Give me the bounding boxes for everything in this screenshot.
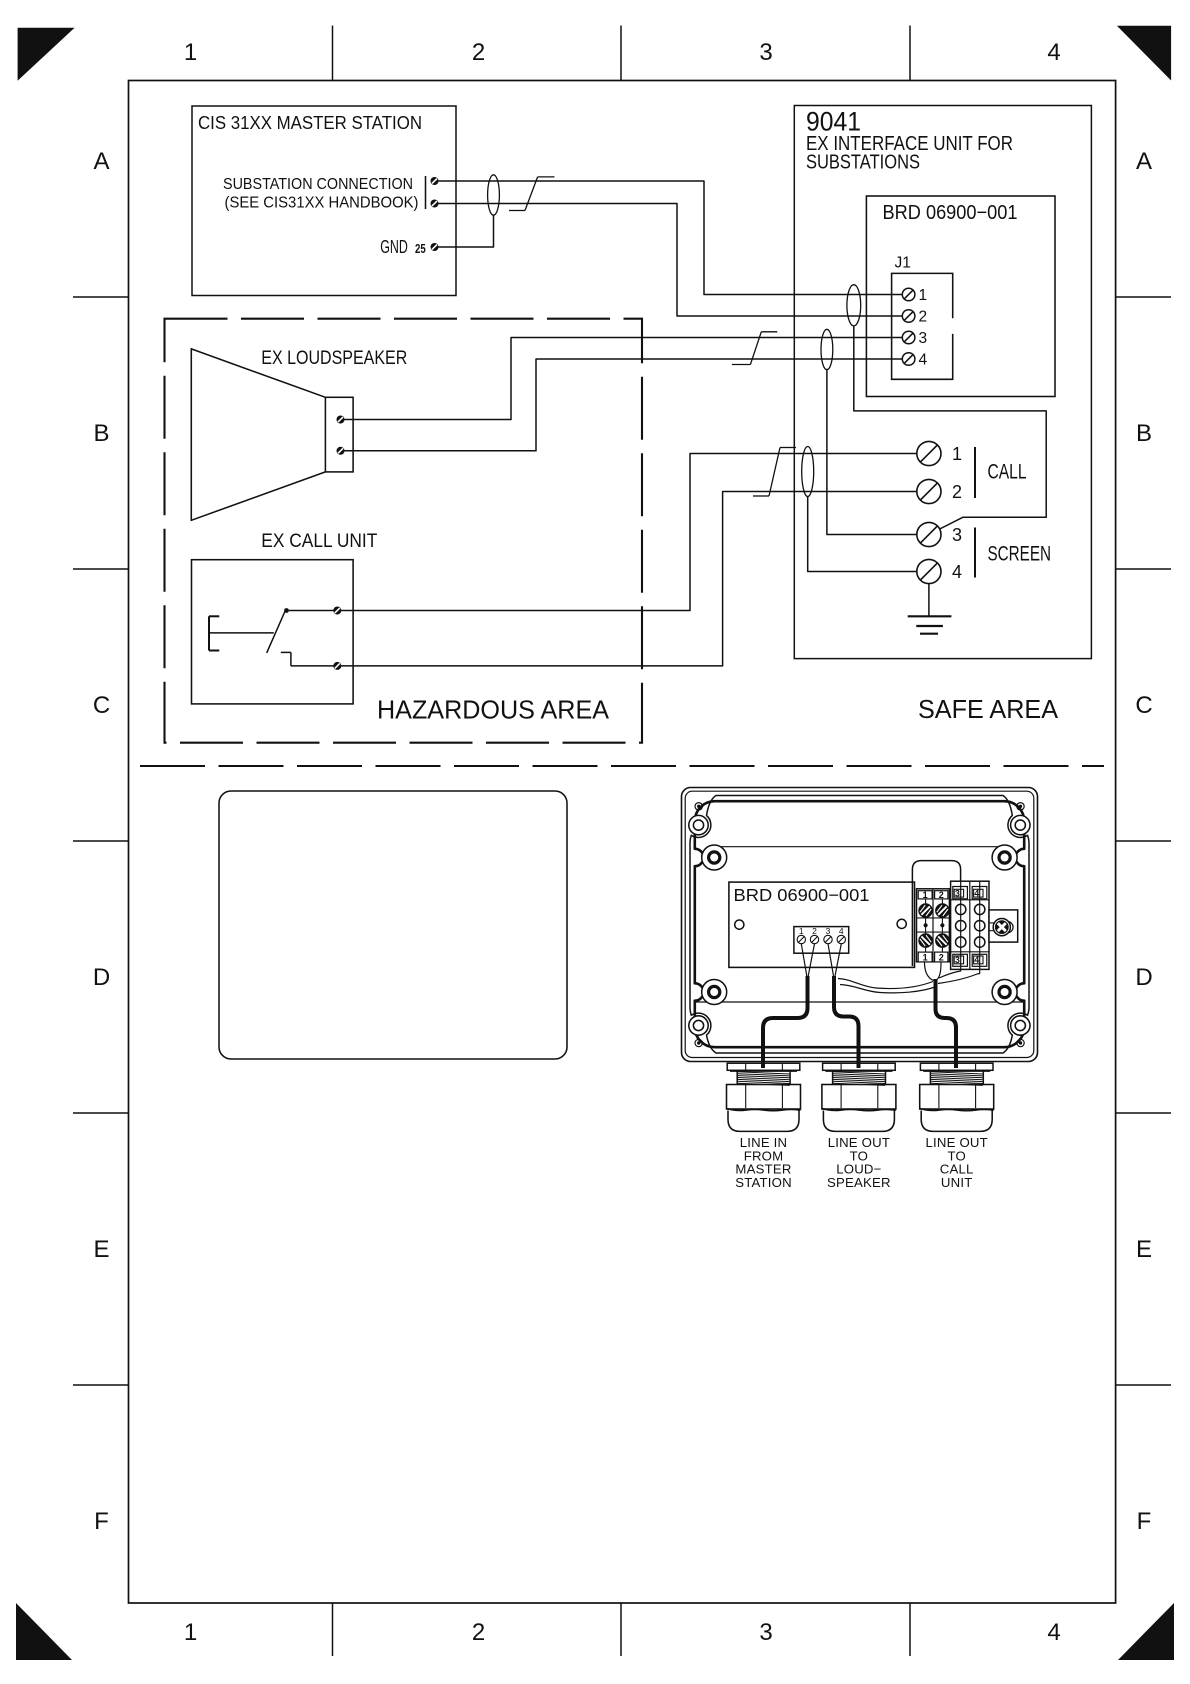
svg-text:(SEE CIS31XX HANDBOOK): (SEE CIS31XX HANDBOOK): [225, 195, 419, 212]
svg-text:EX CALL UNIT: EX CALL UNIT: [261, 531, 377, 552]
svg-text:CIS 31XX MASTER STATION: CIS 31XX MASTER STATION: [198, 113, 422, 133]
svg-text:B: B: [93, 420, 109, 447]
svg-text:2: 2: [939, 890, 944, 900]
svg-text:CALL: CALL: [988, 461, 1027, 484]
svg-text:3: 3: [759, 1619, 772, 1646]
svg-text:UNIT: UNIT: [941, 1175, 973, 1190]
svg-text:C: C: [93, 692, 110, 719]
svg-text:BRD 06900−001: BRD 06900−001: [734, 885, 870, 905]
svg-text:1: 1: [799, 926, 804, 936]
svg-text:D: D: [1135, 964, 1152, 991]
svg-text:1: 1: [923, 953, 928, 963]
svg-text:GND: GND: [380, 237, 408, 257]
svg-text:2: 2: [939, 953, 944, 963]
svg-text:F: F: [94, 1508, 109, 1535]
svg-text:4: 4: [974, 888, 979, 898]
svg-text:3: 3: [955, 888, 960, 898]
svg-text:SUBSTATIONS: SUBSTATIONS: [806, 152, 920, 174]
svg-text:EX LOUDSPEAKER: EX LOUDSPEAKER: [261, 348, 407, 369]
svg-text:A: A: [93, 148, 109, 175]
svg-text:SPEAKER: SPEAKER: [827, 1175, 891, 1190]
svg-text:1: 1: [919, 287, 928, 304]
svg-text:1: 1: [184, 39, 197, 66]
svg-text:2: 2: [472, 1619, 485, 1646]
svg-text:2: 2: [919, 309, 928, 326]
svg-text:SAFE AREA: SAFE AREA: [918, 694, 1059, 724]
svg-text:2: 2: [812, 926, 817, 936]
svg-text:4: 4: [919, 352, 928, 369]
svg-text:C: C: [1135, 692, 1152, 719]
svg-text:2: 2: [952, 482, 962, 502]
svg-text:J1: J1: [895, 255, 911, 272]
svg-text:4: 4: [1047, 39, 1060, 66]
svg-text:1: 1: [184, 1619, 197, 1646]
svg-text:F: F: [1137, 1508, 1152, 1535]
svg-text:HAZARDOUS AREA: HAZARDOUS AREA: [377, 695, 610, 725]
svg-text:2: 2: [472, 39, 485, 66]
svg-text:4: 4: [839, 926, 844, 936]
svg-text:D: D: [93, 964, 110, 991]
svg-text:1: 1: [923, 890, 928, 900]
svg-text:SUBSTATION CONNECTION: SUBSTATION CONNECTION: [223, 176, 413, 193]
svg-text:BRD 06900−001: BRD 06900−001: [883, 202, 1018, 224]
svg-text:3: 3: [919, 330, 928, 347]
svg-text:SCREEN: SCREEN: [988, 543, 1052, 566]
svg-text:1: 1: [952, 444, 962, 464]
svg-text:E: E: [1136, 1236, 1152, 1263]
svg-text:A: A: [1136, 148, 1152, 175]
svg-text:25: 25: [415, 241, 426, 256]
svg-text:3: 3: [759, 39, 772, 66]
svg-text:B: B: [1136, 420, 1152, 447]
svg-text:9041: 9041: [806, 107, 861, 137]
svg-text:4: 4: [952, 562, 962, 582]
svg-text:3: 3: [826, 926, 831, 936]
svg-text:4: 4: [974, 955, 979, 965]
svg-text:3: 3: [952, 525, 962, 545]
svg-text:E: E: [93, 1236, 109, 1263]
svg-text:3: 3: [955, 955, 960, 965]
svg-text:4: 4: [1047, 1619, 1060, 1646]
svg-text:STATION: STATION: [735, 1175, 792, 1190]
